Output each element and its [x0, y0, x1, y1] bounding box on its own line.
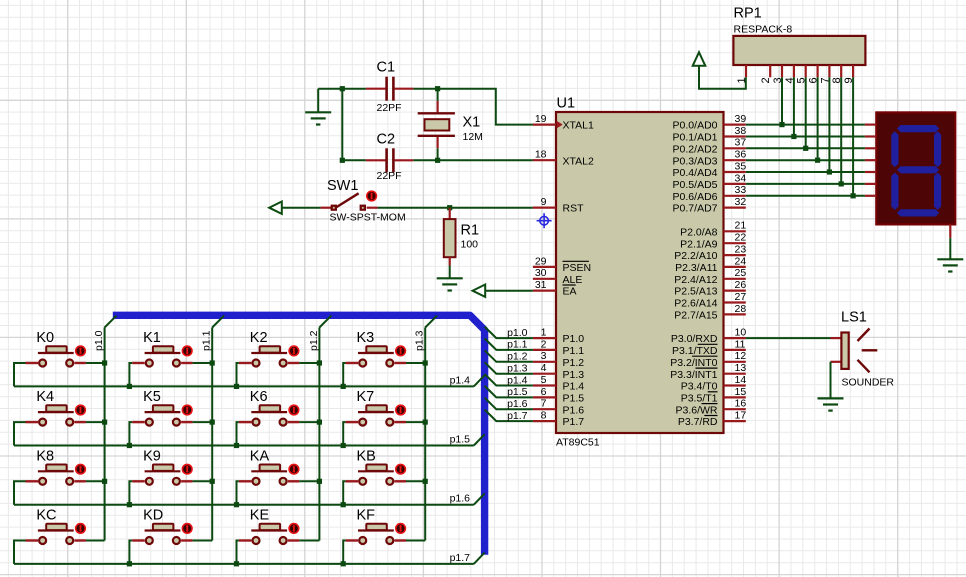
junction row p1.4 col 1: [127, 384, 132, 389]
pin 36 P0.3/AD3 (U1 right): [673, 149, 747, 168]
bus entry row p1.5: [474, 434, 485, 445]
push button KD: [132, 508, 193, 544]
wire crystal top stub: [437, 89, 439, 101]
push button K4: [26, 389, 87, 425]
ground (display): [937, 259, 963, 271]
origin marker: [537, 213, 552, 228]
svg-text:P1.3: P1.3: [563, 369, 585, 381]
svg-text:5: 5: [541, 374, 547, 386]
junction RST / R1: [447, 205, 452, 210]
svg-text:12: 12: [735, 350, 747, 362]
junction row p1.4 col 3: [341, 384, 346, 389]
wire bus to P1.1: [485, 338, 533, 350]
svg-text:100: 100: [461, 239, 479, 251]
wire K4 left to row p1.5: [14, 422, 26, 445]
svg-text:R1: R1: [461, 223, 480, 239]
svg-text:P3.6/WR: P3.6/WR: [675, 404, 717, 416]
wire bus to P1.7: [485, 410, 533, 422]
svg-text:32: 32: [735, 196, 747, 208]
pin display seg 4: [865, 159, 876, 161]
svg-text:37: 37: [735, 137, 747, 149]
7-seg segment G: [897, 166, 939, 173]
pin 4 (RP1): [784, 65, 796, 84]
wire AD1 net: [746, 136, 865, 138]
svg-text:EA: EA: [563, 286, 577, 298]
svg-text:6: 6: [541, 386, 547, 398]
power terminal (VCC arrow): [693, 52, 706, 66]
wire row p1.7: [14, 563, 474, 565]
svg-text:P1.0: P1.0: [563, 333, 585, 345]
wire column p1.0 vertical: [104, 328, 106, 541]
svg-text:P0.5/AD5: P0.5/AD5: [673, 179, 718, 191]
pin 7 (RP1): [819, 65, 831, 84]
svg-text:KD: KD: [143, 508, 163, 524]
pin display common: [949, 224, 951, 237]
svg-text:P1.6: P1.6: [563, 404, 585, 416]
pin 12 P3.2/INT0 (U1 right): [670, 350, 746, 369]
svg-text:P0.3/AD3: P0.3/AD3: [673, 155, 718, 167]
svg-text:K9: K9: [143, 448, 161, 464]
sounder LS1: [831, 329, 878, 373]
ground (R1): [437, 278, 463, 290]
wire bus to P1.5: [485, 386, 533, 398]
junction AD6: [851, 193, 856, 198]
svg-text:KE: KE: [250, 508, 270, 524]
junction AD5: [839, 181, 844, 186]
svg-text:16: 16: [735, 398, 747, 410]
svg-text:P3.1/TXD: P3.1/TXD: [672, 345, 718, 357]
svg-text:p1.0: p1.0: [93, 330, 105, 351]
svg-text:p1.6: p1.6: [507, 398, 528, 410]
pin 3 (RP1): [772, 65, 784, 84]
svg-text:11: 11: [735, 338, 746, 350]
junction column p1.3 row 1: [423, 420, 428, 425]
svg-text:14: 14: [735, 374, 747, 386]
svg-text:P3.4/T0: P3.4/T0: [681, 381, 718, 393]
pin 38 P0.1/AD1 (U1 right): [673, 125, 747, 144]
svg-text:4: 4: [541, 362, 547, 374]
wire RP1 pin 3 to AD0: [781, 77, 783, 124]
svg-text:P3.7/RD: P3.7/RD: [678, 416, 718, 428]
pin 28 P2.7/A15 (U1 right): [674, 303, 746, 322]
junction column p1.1 row 1: [210, 420, 215, 425]
wire KA left to row p1.6: [237, 481, 239, 504]
wire KD right to column p1.1: [193, 540, 213, 542]
wire K3 right to column p1.3: [406, 362, 425, 364]
wire left vertical C1-C2: [341, 89, 343, 161]
svg-text:p1.7: p1.7: [450, 552, 471, 564]
pin 39 P0.0/AD0 (U1 right): [673, 113, 747, 132]
pin 15 P3.5/T1 (U1 right): [681, 386, 747, 405]
svg-text:22: 22: [735, 232, 747, 244]
wire KB left to row p1.6: [343, 481, 345, 504]
svg-text:p1.2: p1.2: [507, 351, 528, 363]
wire column p1.3 vertical: [424, 328, 426, 541]
junction row p1.7 col 1: [127, 561, 132, 566]
7-seg segment F: [891, 131, 898, 167]
junction column p1.2 row 1: [317, 420, 322, 425]
7-seg segment D: [897, 209, 939, 216]
wire bus to P1.2: [485, 350, 533, 362]
wire KE left to row p1.7: [237, 541, 239, 564]
push button K0: [26, 330, 87, 366]
svg-text:2: 2: [541, 338, 547, 350]
svg-text:C2: C2: [377, 132, 396, 148]
pin 6 (RP1): [808, 65, 820, 84]
svg-text:P1.7: P1.7: [563, 416, 585, 428]
wire SW1 to RST pin: [378, 207, 533, 209]
svg-text:U1: U1: [557, 96, 576, 112]
wire VCC to RP1 pin 1: [699, 66, 746, 89]
junction column p1.3 row 0: [423, 360, 428, 365]
7-seg segment A: [897, 125, 939, 132]
svg-text:22PF: 22PF: [377, 170, 402, 182]
junction column p1.0 row 1: [102, 420, 107, 425]
pin 25 P2.4/A12 (U1 right): [674, 267, 746, 286]
pin 27 P2.6/A14 (U1 right): [674, 291, 746, 310]
svg-text:2: 2: [760, 77, 772, 83]
svg-text:p1.4: p1.4: [450, 374, 471, 386]
svg-text:P2.1/A9: P2.1/A9: [680, 238, 718, 250]
svg-text:XTAL1: XTAL1: [563, 120, 594, 132]
svg-text:39: 39: [735, 113, 747, 125]
wire K9 left to row p1.6: [129, 481, 132, 504]
push button KE: [239, 508, 300, 544]
svg-text:XTAL2: XTAL2: [563, 155, 594, 167]
svg-text:9: 9: [541, 196, 547, 208]
svg-text:25: 25: [735, 267, 747, 279]
svg-text:23: 23: [735, 244, 747, 256]
svg-text:P0.4/AD4: P0.4/AD4: [673, 167, 718, 179]
wire K5 right to column p1.1: [193, 421, 213, 423]
wire KF left to row p1.7: [343, 541, 345, 564]
svg-text:P0.6/AD6: P0.6/AD6: [673, 191, 718, 203]
push button K9: [132, 448, 193, 484]
push button K2: [239, 330, 300, 366]
svg-text:1: 1: [541, 327, 547, 339]
junction row p1.6 col 2: [234, 502, 239, 507]
junction AD0: [779, 122, 784, 127]
svg-text:SW-SPST-MOM: SW-SPST-MOM: [330, 211, 406, 223]
junction column p1.3 row 2: [423, 479, 428, 484]
wire RP1 pin 4 to AD1: [793, 77, 795, 136]
pin 1 P1.0 (U1 left): [533, 327, 584, 346]
wire RP1 pin 9 to AD6: [852, 77, 854, 196]
wire AD2 net: [746, 147, 865, 149]
svg-text:P0.1/AD1: P0.1/AD1: [673, 132, 718, 144]
svg-text:K0: K0: [36, 330, 54, 346]
svg-text:P1.1: P1.1: [563, 345, 585, 357]
push button K5: [132, 389, 193, 425]
wire display common to ground: [949, 238, 951, 259]
junction column p1.1 row 2: [210, 479, 215, 484]
pin 26 P2.5/A13 (U1 right): [674, 279, 746, 298]
7-seg segment E: [891, 173, 898, 211]
wire K0 left to row p1.4: [14, 363, 26, 386]
svg-text:p1.5: p1.5: [450, 434, 471, 446]
pin 2 (RP1): [760, 65, 772, 84]
wire K0 right to column p1.0: [86, 362, 105, 364]
svg-text:P2.4/A12: P2.4/A12: [674, 274, 717, 286]
wire XTAL1 top rail: [318, 89, 533, 125]
svg-text:17: 17: [735, 410, 747, 422]
wire AD3 net: [746, 159, 865, 161]
svg-text:KB: KB: [357, 448, 376, 464]
junction crystal bottom: [435, 158, 440, 163]
pin 19 XTAL1 (U1 left): [533, 113, 594, 132]
wire K6 right to column p1.2: [299, 421, 319, 423]
wire bus to P1.4: [485, 374, 533, 386]
pin 6 P1.5 (U1 left): [533, 386, 584, 405]
pin 8 P1.7 (U1 left): [533, 410, 584, 429]
svg-text:P0.0/AD0: P0.0/AD0: [673, 120, 718, 132]
pin 29 PSEN (U1 left): [533, 255, 591, 274]
push button K1: [132, 330, 193, 366]
push button KB: [346, 448, 407, 484]
svg-text:K3: K3: [357, 330, 375, 346]
wire K7 left to row p1.5: [343, 422, 345, 445]
junction column p1.0 row 0: [102, 360, 107, 365]
pin 10 P3.0/RXD (U1 right): [671, 327, 747, 346]
wire row p1.5: [14, 445, 474, 447]
svg-text:P2.6/A14: P2.6/A14: [674, 298, 717, 310]
svg-text:3: 3: [541, 350, 547, 362]
svg-text:24: 24: [735, 255, 747, 267]
svg-text:30: 30: [535, 267, 547, 279]
svg-text:P1.5: P1.5: [563, 393, 585, 405]
pin 11 P3.1/TXD (U1 right): [672, 338, 746, 357]
pin 5 P1.4 (U1 left): [533, 374, 584, 393]
wire AD4 net: [746, 171, 865, 173]
svg-text:36: 36: [735, 149, 747, 161]
push button KF: [346, 508, 407, 544]
svg-text:28: 28: [735, 303, 747, 315]
svg-text:p1.7: p1.7: [507, 410, 528, 422]
wire RP1 pin 5 to AD2: [805, 77, 807, 148]
switch SW1: [321, 190, 378, 210]
svg-text:34: 34: [735, 172, 747, 184]
svg-text:P0.7/AD7: P0.7/AD7: [673, 203, 718, 215]
svg-text:35: 35: [735, 160, 747, 172]
wire K5 left to row p1.5: [129, 422, 132, 445]
junction crystal top: [435, 86, 440, 91]
svg-text:RP1: RP1: [734, 6, 762, 22]
svg-text:10: 10: [735, 327, 747, 339]
7-seg segment B: [934, 131, 941, 167]
pin 33 P0.6/AD6 (U1 right): [673, 184, 747, 203]
junction top rail / left vertical: [340, 86, 345, 91]
svg-text:p1.3: p1.3: [507, 363, 528, 375]
junction AD2: [803, 146, 808, 151]
svg-text:P3.5/T1: P3.5/T1: [681, 393, 718, 405]
pin display seg 5: [865, 171, 876, 173]
pin 2 P1.1 (U1 left): [533, 338, 584, 357]
bus entry column p1.3: [425, 316, 437, 328]
svg-text:7: 7: [541, 398, 547, 410]
junction row p1.7 col 3: [341, 561, 346, 566]
wire K8 left to row p1.6: [14, 481, 26, 504]
bus P1: [113, 315, 485, 554]
crystal X1: [418, 101, 455, 148]
wire K4 right to column p1.0: [86, 421, 105, 423]
svg-text:K8: K8: [36, 448, 54, 464]
svg-text:12M: 12M: [463, 131, 483, 143]
svg-text:P3.3/INT1: P3.3/INT1: [670, 369, 717, 381]
wire KC right to column p1.0: [86, 540, 105, 542]
pin 14 P3.4/T0 (U1 right): [681, 374, 747, 393]
junction bottom rail / left vertical: [340, 158, 345, 163]
7-seg segment C: [934, 173, 941, 211]
pin 24 P2.3/A11 (U1 right): [675, 255, 746, 274]
resistor pack RP1 body: [733, 36, 865, 65]
wire AD0 net: [746, 124, 865, 126]
pin 34 P0.5/AD5 (U1 right): [673, 172, 747, 191]
junction column p1.2 row 2: [317, 479, 322, 484]
wire XTAL2 bottom rail: [342, 159, 533, 161]
pin 4 P1.3 (U1 left): [533, 362, 584, 381]
ground (crystal circuit): [305, 89, 331, 125]
svg-text:29: 29: [535, 255, 547, 267]
push button K8: [26, 448, 87, 484]
wire KC left to row p1.7: [14, 541, 26, 564]
wire K7 right to column p1.3: [406, 421, 425, 423]
IC U1 AT89C51 body: [556, 112, 724, 433]
capacitor C1: [366, 77, 414, 101]
svg-text:P0.2/AD2: P0.2/AD2: [673, 143, 718, 155]
svg-text:KC: KC: [36, 508, 56, 524]
svg-text:p1.3: p1.3: [414, 330, 426, 351]
junction row p1.5 col 3: [341, 443, 346, 448]
bus entry column p1.1: [212, 316, 224, 328]
wire bus to P1.0: [485, 327, 533, 339]
svg-text:KA: KA: [250, 448, 270, 464]
pin 3 P1.2 (U1 left): [533, 350, 584, 369]
wire crystal bottom stub: [437, 148, 439, 160]
pin 23 P2.2/A10 (U1 right): [674, 244, 746, 263]
svg-text:33: 33: [735, 184, 747, 196]
pin 30 ALE (U1 left): [533, 267, 582, 286]
wire LS1 to ground: [830, 362, 832, 398]
wire RP1 pin 8 to AD5: [840, 77, 842, 184]
svg-text:p1.0: p1.0: [507, 327, 528, 339]
svg-text:p1.4: p1.4: [507, 374, 528, 386]
pin 9 RST (U1 left): [533, 196, 584, 215]
svg-text:AT89C51: AT89C51: [556, 437, 600, 449]
pin 35 P0.4/AD4 (U1 right): [673, 160, 747, 179]
wire AD6 net: [746, 195, 865, 197]
wire column p1.1 vertical: [211, 328, 213, 541]
wire K2 right to column p1.2: [299, 362, 319, 364]
push button K7: [346, 389, 407, 425]
pin 1 (RP1): [736, 65, 748, 84]
pin marker XTAL1 bubble: [557, 122, 561, 127]
capacitor C2: [366, 148, 414, 172]
svg-text:P1.2: P1.2: [563, 357, 585, 369]
push button K6: [239, 389, 300, 425]
svg-text:p1.6: p1.6: [450, 493, 471, 505]
svg-text:38: 38: [735, 125, 747, 137]
wire R1 to ground: [449, 266, 451, 278]
pin 21 P2.0/A8 (U1 right): [680, 220, 746, 239]
bus entry row p1.6: [474, 494, 485, 505]
wire KF right to column p1.3: [406, 540, 425, 542]
wire P3.0 to LS1: [746, 337, 831, 339]
svg-text:p1.2: p1.2: [308, 330, 320, 351]
junction row p1.5 col 2: [234, 443, 239, 448]
7-segment display body: [876, 112, 955, 224]
svg-text:X1: X1: [463, 115, 481, 131]
pin 8 (RP1): [831, 65, 843, 84]
junction row p1.7 col 2: [234, 561, 239, 566]
wire column p1.2 vertical: [318, 328, 320, 541]
junction column p1.0 row 2: [102, 479, 107, 484]
junction row p1.4 col 2: [234, 384, 239, 389]
junction AD4: [827, 169, 832, 174]
pin 7 P1.6 (U1 left): [533, 398, 584, 417]
junction row p1.5 col 1: [127, 443, 132, 448]
wire KA right to column p1.2: [299, 480, 319, 482]
resistor R1: [444, 208, 456, 266]
wire K1 left to row p1.4: [129, 363, 132, 386]
bus entry column p1.0: [105, 316, 117, 328]
svg-text:P1.4: P1.4: [563, 381, 585, 393]
svg-text:SW1: SW1: [327, 178, 358, 194]
svg-text:18: 18: [535, 149, 547, 161]
wire terminal to EA pin: [485, 290, 533, 292]
svg-text:P3.0/RXD: P3.0/RXD: [671, 333, 718, 345]
wire KD left to row p1.7: [129, 541, 132, 564]
pin 32 P0.7/AD7 (U1 right): [673, 196, 747, 215]
svg-text:K7: K7: [357, 389, 375, 405]
svg-text:8: 8: [541, 410, 547, 422]
bus entry column p1.2: [319, 316, 331, 328]
wire K9 right to column p1.1: [193, 480, 213, 482]
ground (LS1): [818, 398, 844, 410]
svg-text:PSEN: PSEN: [563, 262, 592, 274]
pin 13 P3.3/INT1 (U1 right): [670, 362, 746, 381]
svg-text:13: 13: [735, 362, 747, 374]
wire bus to P1.6: [485, 398, 533, 410]
pin 17 P3.7/RD (U1 right): [678, 410, 747, 429]
svg-text:p1.1: p1.1: [507, 339, 528, 351]
svg-text:K1: K1: [143, 330, 161, 346]
svg-text:P3.2/INT0: P3.2/INT0: [670, 357, 717, 369]
junction row p1.6 col 1: [127, 502, 132, 507]
wire row p1.4: [14, 385, 474, 387]
junction row p1.6 col 3: [341, 502, 346, 507]
svg-text:p1.5: p1.5: [507, 386, 528, 398]
wire K2 left to row p1.4: [237, 363, 239, 386]
pin 37 P0.2/AD2 (U1 right): [673, 137, 747, 156]
pin 22 P2.1/A9 (U1 right): [680, 232, 746, 251]
push button KA: [239, 448, 300, 484]
wire K8 right to column p1.0: [86, 480, 105, 482]
svg-text:P2.7/A15: P2.7/A15: [674, 310, 717, 322]
svg-text:P2.5/A13: P2.5/A13: [674, 286, 717, 298]
wire K1 right to column p1.1: [193, 362, 213, 364]
junction AD3: [815, 158, 820, 163]
terminal (EA, left arrow): [473, 285, 486, 297]
pin 5 (RP1): [796, 65, 808, 84]
wire KB right to column p1.3: [406, 480, 425, 482]
svg-text:22PF: 22PF: [377, 102, 402, 114]
svg-text:19: 19: [535, 113, 547, 125]
terminal (RST, left arrow): [269, 202, 282, 214]
svg-text:P2.3/A11: P2.3/A11: [675, 262, 718, 274]
svg-text:SOUNDER: SOUNDER: [842, 377, 895, 389]
svg-text:RST: RST: [563, 203, 585, 215]
svg-text:RESPACK-8: RESPACK-8: [734, 24, 793, 36]
